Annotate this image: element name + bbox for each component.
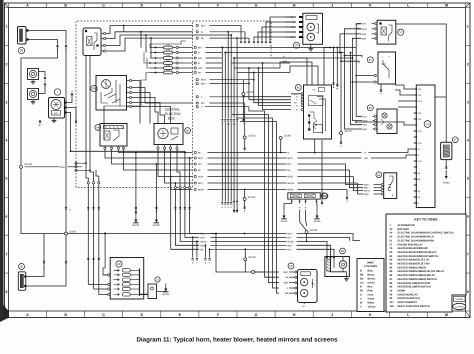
svg-text:CENTRAL: CENTRAL	[165, 108, 180, 112]
grid reference letters bottom	[8, 311, 10, 318]
ground blower motor	[346, 272, 348, 277]
svg-text:95: 95	[92, 87, 96, 91]
wires ignition switch to bus	[132, 81, 140, 124]
mirror switch feed bold	[103, 274, 108, 276]
svg-text:B/Y: B/Y	[198, 47, 202, 50]
heated windscreen label 84	[321, 193, 327, 199]
svg-text:R/Y: R/Y	[288, 163, 292, 166]
grid reference letters top	[8, 3, 10, 8]
wire heated washer jet lead top	[26, 234, 44, 277]
svg-text:HEATED WINDSCREEN DE-ICE RELAY: HEATED WINDSCREEN DE-ICE RELAY	[398, 270, 445, 273]
svg-text:57: 57	[399, 30, 403, 34]
fuse F30	[150, 47, 164, 49]
wire bottom bus	[21, 168, 65, 233]
mirror switch contact row	[122, 283, 130, 286]
wire ladder mid labels	[194, 151, 196, 153]
svg-text:ALTERNATOR: ALTERNATOR	[398, 224, 415, 227]
connector 118 pin	[414, 196, 417, 198]
wires into connector 118 from left	[356, 122, 413, 125]
connector 118 pin	[414, 106, 417, 108]
ground alternator	[53, 118, 55, 120]
alternator 7	[49, 98, 65, 119]
relay 85 bottom pin	[314, 139, 316, 153]
svg-text:D: D	[140, 3, 143, 7]
svg-text:S1044: S1044	[248, 196, 256, 199]
fuse F26	[150, 67, 164, 69]
wire drop below switch 87	[380, 84, 382, 89]
relay pins right	[101, 33, 104, 35]
diagram number logo	[454, 297, 466, 302]
switch 87 pins	[374, 74, 376, 76]
svg-text:B/Y: B/Y	[198, 72, 202, 75]
svg-text:G: G	[255, 3, 258, 7]
svg-text:S1049: S1049	[310, 229, 318, 232]
svg-text:85: 85	[297, 86, 301, 90]
heated rear window relay 80	[154, 124, 183, 145]
wire alternator output bus	[71, 151, 185, 152]
multi function switch connector 118	[416, 85, 435, 208]
svg-text:118: 118	[390, 305, 395, 308]
svg-text:75: 75	[295, 43, 299, 47]
grid reference numbers left	[5, 7, 9, 9]
wires into connector 118 top	[395, 85, 414, 89]
ignition switch 95	[96, 76, 127, 111]
wires into mirror pins	[88, 262, 107, 284]
heated rear window switch 81	[377, 109, 397, 134]
svg-text:Bn/R: Bn/R	[198, 176, 203, 179]
svg-text:S1082: S1082	[443, 182, 450, 185]
wire verticals through dashed bottom to lower ladder	[171, 177, 199, 250]
splice S1062	[65, 232, 68, 235]
ground door mirror	[303, 303, 305, 305]
svg-text:B: B	[64, 3, 67, 7]
wire end drops below lower ladder	[192, 237, 194, 257]
connector 118 pin	[414, 190, 417, 192]
ground G1004	[157, 291, 166, 293]
connector 118 pin	[414, 94, 417, 96]
heated washer jet 82	[18, 272, 26, 291]
svg-text:BOX: BOX	[168, 117, 176, 121]
svg-text:G1001: G1001	[132, 224, 140, 227]
ground washer jets	[310, 44, 312, 46]
svg-text:Bk/Y: Bk/Y	[364, 187, 369, 190]
heated rear window unit 75	[303, 13, 323, 44]
switch 81 label	[367, 105, 373, 111]
maxi fusebox link 97	[445, 97, 447, 142]
connector 118 pin	[414, 118, 417, 120]
ground G1001	[135, 215, 137, 220]
mirror relay small box	[148, 284, 157, 299]
svg-text:J: J	[331, 313, 333, 317]
svg-text:1: 1	[6, 25, 8, 29]
relay 80 label	[185, 128, 191, 134]
wire end markers below alternator	[39, 120, 41, 123]
wires into switch 87	[356, 75, 374, 77]
wire stub third feeder hook	[98, 176, 100, 182]
electric door mirror control switch 40	[110, 258, 144, 300]
vertical feeders into fuse area	[140, 32, 142, 48]
wire ladder from fuses with labels	[194, 46, 196, 48]
wire battery negative	[29, 40, 58, 45]
splice S1042	[244, 103, 246, 136]
wire relay pin2 bus	[106, 32, 193, 39]
svg-text:117: 117	[390, 301, 395, 304]
connector 118 pin	[414, 166, 417, 168]
wires into switch 81 from bundle	[356, 48, 362, 117]
wire ladder last line end	[346, 190, 348, 197]
relay 80 pins down	[157, 145, 159, 149]
wire feed relay57 pin3 from fuse line	[340, 34, 361, 53]
wire heated washer jet lead bottom	[26, 235, 66, 286]
wire mirror to relay bold	[140, 293, 149, 295]
svg-text:7: 7	[6, 252, 8, 256]
svg-text:ELECTRIC DOOR MIRROR LH: ELECTRIC DOOR MIRROR LH	[398, 236, 434, 239]
svg-text:S1062: S1062	[69, 230, 77, 233]
svg-text:BATTERY: BATTERY	[398, 228, 410, 231]
connector 118 pin	[414, 100, 417, 102]
svg-text:G1002: G1002	[153, 224, 161, 227]
svg-text:2: 2	[6, 63, 8, 67]
svg-text:S1063: S1063	[25, 163, 33, 166]
wire link top	[435, 96, 446, 98]
mirror switch pins	[108, 274, 110, 276]
svg-text:8: 8	[6, 290, 8, 294]
connector 118 pin	[414, 88, 417, 90]
battery label 20	[18, 47, 24, 53]
svg-text:CLARKE: CLARKE	[455, 306, 464, 309]
svg-text:Bk/R: Bk/R	[60, 166, 65, 169]
connector 118 pin	[414, 136, 417, 138]
connector 118 pin	[414, 130, 417, 132]
svg-text:HEATED REAR WINDOW: HEATED REAR WINDOW	[398, 247, 429, 250]
svg-text:12E: 12E	[418, 112, 422, 115]
mirror switch label 40	[116, 261, 122, 267]
svg-text:6: 6	[467, 214, 469, 218]
wire drops to continuation markers	[221, 48, 223, 119]
svg-text:87: 87	[369, 58, 373, 62]
svg-text:4: 4	[6, 138, 8, 142]
wires relay 80 to ladder	[158, 148, 193, 177]
svg-text:IGNITION RELAY: IGNITION RELAY	[398, 293, 419, 296]
svg-text:B: B	[360, 270, 362, 273]
svg-text:K: K	[369, 313, 372, 317]
wires above relay 85	[271, 58, 307, 85]
svg-text:Bk/Gn: Bk/Gn	[201, 240, 208, 243]
svg-text:5: 5	[6, 176, 8, 180]
link 97 label	[452, 137, 458, 143]
svg-text:Bk/Pk: Bk/Pk	[288, 189, 295, 192]
svg-text:4: 4	[467, 138, 469, 142]
relay 94 label	[95, 125, 101, 131]
svg-text:40: 40	[117, 262, 121, 266]
wire stubs right of central electric box top	[196, 24, 198, 26]
splice S1057	[242, 80, 244, 93]
wire stubs out of central electric box	[196, 79, 198, 81]
wire horn upper to rail	[39, 72, 46, 77]
ignition relay 94 lower box	[100, 124, 127, 147]
connector 118 pin	[414, 124, 417, 126]
svg-text:Bk/Y: Bk/Y	[288, 244, 293, 247]
connector pins below relay 80	[157, 147, 159, 149]
wire relay pin3 bus	[106, 35, 232, 46]
svg-text:IGNITION SWITCH: IGNITION SWITCH	[398, 297, 420, 300]
svg-text:R/Y: R/Y	[198, 163, 202, 166]
door mirror pins	[295, 271, 297, 273]
wire end markers battery	[57, 45, 59, 48]
ground G1002	[155, 215, 157, 220]
svg-text:D: D	[140, 313, 143, 317]
svg-text:C: C	[102, 3, 105, 7]
svg-text:ELECTRIC DOOR MIRROR RH: ELECTRIC DOOR MIRROR RH	[398, 239, 435, 242]
splice S1063	[20, 165, 23, 168]
wire mirror feeders vertical	[253, 271, 265, 273]
svg-text:88: 88	[341, 250, 344, 253]
svg-text:S1065: S1065	[314, 220, 322, 223]
svg-text:5: 5	[467, 176, 469, 180]
svg-text:G: G	[255, 313, 258, 317]
svg-text:Grey: Grey	[368, 294, 374, 297]
svg-text:H: H	[293, 3, 296, 7]
svg-text:Bk/R: Bk/R	[288, 176, 293, 179]
svg-text:ENGINE RUN RELAY: ENGINE RUN RELAY	[398, 243, 423, 246]
svg-text:B/Y: B/Y	[291, 16, 295, 19]
wire horn lower	[39, 86, 46, 94]
svg-text:B/Y: B/Y	[288, 248, 292, 251]
svg-text:Bk/Y: Bk/Y	[363, 115, 368, 118]
ground horn	[32, 100, 34, 102]
label 75	[294, 42, 300, 48]
svg-text:G1004: G1004	[162, 293, 170, 296]
connector 118 pin	[414, 202, 417, 204]
fuse F28	[150, 57, 164, 59]
switch 87 label	[367, 57, 373, 63]
heated windscreen pins	[291, 199, 293, 203]
fuse F25	[150, 72, 164, 74]
wire battery positive	[29, 31, 66, 45]
svg-text:F26: F26	[166, 64, 169, 67]
wire feed relay57 pin4 from fuse line	[234, 57, 352, 59]
svg-text:Bn: Bn	[360, 278, 364, 281]
svg-text:Bk/Pk: Bk/Pk	[198, 189, 205, 192]
central electric box dashed outline	[76, 21, 271, 188]
svg-text:3: 3	[6, 101, 8, 105]
svg-text:M: M	[445, 3, 448, 7]
svg-text:ELECTRIC: ELECTRIC	[165, 112, 181, 116]
svg-text:1: 1	[467, 25, 469, 29]
svg-text:F29: F29	[166, 49, 169, 52]
svg-text:12-E: 12-E	[418, 130, 423, 133]
ignition switch pins	[127, 80, 130, 82]
svg-text:R: R	[360, 286, 362, 289]
svg-text:12C: 12C	[418, 94, 422, 97]
svg-text:7: 7	[467, 252, 469, 256]
arrow stubs above lower ladder	[233, 202, 235, 211]
svg-text:84: 84	[323, 194, 327, 198]
svg-text:S1045: S1045	[249, 256, 257, 259]
connector 118 pin	[414, 172, 417, 174]
svg-text:12K: 12K	[418, 118, 422, 121]
svg-text:F27: F27	[166, 59, 169, 62]
svg-text:Red: Red	[368, 286, 373, 289]
svg-text:8: 8	[467, 290, 469, 294]
connector 118 pin	[414, 184, 417, 186]
fuse F27	[150, 62, 164, 64]
svg-text:H24088: H24088	[455, 298, 463, 301]
svg-text:Bk/R: Bk/R	[364, 184, 369, 187]
svg-text:Bk/Y: Bk/Y	[201, 83, 206, 86]
connector 118 pin	[414, 178, 417, 180]
heated windscreen switch 87	[378, 52, 396, 84]
wire branch S1063 to central electric box stubs	[25, 166, 60, 168]
svg-text:A: A	[26, 313, 29, 317]
svg-text:Bk/Y: Bk/Y	[288, 233, 293, 236]
mirror switch contact row	[122, 273, 130, 276]
wire feeds heated washer jets with continuation drops	[270, 17, 296, 41]
wire ladder to heater blower	[250, 233, 287, 235]
wire link down arrow	[445, 160, 447, 166]
grid reference numbers right	[466, 7, 471, 9]
svg-text:M: M	[445, 313, 448, 317]
blower switch label 89	[376, 172, 382, 178]
relay 85 left pins	[301, 93, 303, 95]
svg-text:Bk/S: Bk/S	[201, 79, 206, 82]
connector pins below ignition relay 94	[104, 147, 106, 149]
wire end group right of relay 85	[333, 48, 335, 86]
svg-text:82: 82	[20, 265, 24, 269]
svg-text:Violet: Violet	[368, 298, 375, 301]
blower switch pins	[381, 183, 383, 185]
mirror switch contact row	[122, 278, 130, 281]
relay lower pins	[104, 146, 106, 150]
svg-text:Bk/S: Bk/S	[288, 157, 293, 160]
svg-text:S1022: S1022	[345, 130, 353, 133]
wire alternator B+ down	[67, 113, 71, 152]
relay 85 label	[295, 85, 301, 91]
wire top right entering	[396, 24, 446, 97]
svg-text:H: H	[293, 313, 296, 317]
blower motor internal wiring	[326, 258, 328, 260]
door mirror label 50	[288, 263, 294, 269]
svg-text:F28: F28	[166, 54, 169, 57]
mirror switch contact row	[122, 287, 130, 290]
svg-text:Bk/B: Bk/B	[364, 193, 369, 196]
svg-text:HEATED WINDSCREEN RELAY: HEATED WINDSCREEN RELAY	[398, 274, 436, 277]
svg-text:HEATED WASHER JET RH: HEATED WASHER JET RH	[398, 263, 430, 266]
connector 118 pin	[414, 148, 417, 150]
fuse feed jumper	[150, 41, 186, 48]
svg-text:2: 2	[467, 63, 469, 67]
svg-text:Bk/Y: Bk/Y	[201, 236, 206, 239]
washer jets pins	[299, 16, 303, 18]
svg-text:B/R: B/R	[294, 93, 298, 96]
wire bus left mid	[103, 106, 105, 140]
svg-text:Bk/S: Bk/S	[198, 157, 203, 160]
heater blower switch 89	[384, 173, 397, 199]
wires relay 85 to left verticals	[291, 93, 301, 95]
svg-text:Bk/R: Bk/R	[362, 37, 367, 40]
svg-text:B: B	[64, 313, 67, 317]
wire fuse line y63 extension	[231, 62, 290, 64]
wire feed relay57 pin2	[345, 29, 362, 53]
svg-text:HEATED WINDSCREEN: HEATED WINDSCREEN	[398, 266, 427, 269]
svg-text:12-E: 12-E	[418, 160, 423, 163]
ignition switch label 95	[91, 85, 97, 91]
junction dots blower ladder	[244, 233, 246, 235]
svg-text:MAXI FUSEBOX: MAXI FUSEBOX	[398, 301, 418, 304]
wire extensions top band	[222, 47, 356, 49]
svg-text:HORN: HORN	[398, 289, 406, 292]
svg-text:HEATED REAR WINDOW RELAY: HEATED REAR WINDOW RELAY	[398, 251, 437, 254]
blower motor label 88	[340, 248, 346, 254]
svg-text:Pink: Pink	[368, 290, 374, 293]
connector 118 pin	[414, 112, 417, 114]
connector 118 pin	[414, 160, 417, 162]
wire alternator small leads	[67, 96, 72, 103]
alternator pins	[64, 101, 66, 103]
svg-text:Bk/Gn: Bk/Gn	[288, 182, 295, 185]
svg-text:C: C	[102, 313, 105, 317]
svg-text:S1042: S1042	[248, 134, 256, 137]
wire feed relay57 pin1	[356, 24, 361, 48]
wire fuse line y68 extension	[234, 67, 280, 69]
svg-text:12M: 12M	[418, 142, 422, 145]
wire battery rail to S1062	[65, 48, 67, 234]
connector 118 pin	[414, 154, 417, 156]
connector 118 label	[424, 121, 431, 128]
svg-text:Bk/Y: Bk/Y	[201, 25, 206, 28]
svg-text:HEATER BLOWER MOTOR: HEATER BLOWER MOTOR	[398, 282, 431, 285]
svg-text:Black: Black	[368, 274, 375, 277]
svg-text:3: 3	[467, 101, 469, 105]
svg-text:S/B: S/B	[291, 26, 295, 29]
wire ignition relay feed second	[90, 56, 94, 182]
splice S1060	[279, 136, 282, 139]
wire box86 bottom left drop	[321, 140, 323, 202]
svg-text:S1064: S1064	[281, 220, 289, 223]
svg-text:20: 20	[20, 49, 24, 53]
svg-text:S1057: S1057	[247, 91, 255, 94]
alternator label 7	[54, 89, 60, 95]
svg-text:F25: F25	[166, 69, 169, 72]
splice S1022 on bundle	[340, 53, 342, 132]
svg-text:COLOURS: COLOURS	[364, 265, 377, 268]
svg-text:B/Y: B/Y	[365, 157, 369, 160]
relay 85 internals	[309, 96, 324, 106]
svg-text:HEATED REAR WINDOW SWITCH: HEATED REAR WINDOW SWITCH	[398, 255, 439, 258]
svg-text:S/B: S/B	[198, 57, 202, 60]
heater blower motor 88	[325, 257, 350, 277]
svg-text:B/Y: B/Y	[201, 233, 205, 236]
electric door mirror unit 50 51	[298, 270, 318, 303]
splice S1045	[244, 249, 246, 257]
scan edge black bar	[0, 0, 9, 322]
wire ignition relay feed down inside box	[86, 56, 88, 182]
splice S1044	[244, 190, 246, 198]
wire fuse line y72.5 extension	[237, 72, 290, 74]
svg-text:HEATER BLOWER SWITCH: HEATER BLOWER SWITCH	[398, 286, 431, 289]
connector 118 pin	[414, 142, 417, 144]
svg-text:A: A	[26, 3, 29, 7]
svg-text:Bk/S: Bk/S	[362, 33, 367, 36]
heated windscreen 84	[288, 193, 321, 199]
wires relay to grounds	[135, 153, 137, 215]
svg-text:B/Y: B/Y	[201, 102, 205, 105]
switch 81 pins	[375, 115, 377, 117]
wire stubs bottom of central electric box	[87, 182, 89, 184]
relay 57 pins	[375, 23, 377, 25]
fuse F29	[150, 52, 164, 54]
wire relay pin1 top bus	[106, 26, 124, 34]
